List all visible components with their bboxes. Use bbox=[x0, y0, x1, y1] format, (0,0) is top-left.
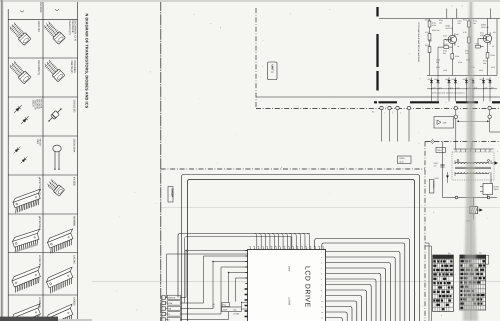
svg-text:C715: C715 bbox=[491, 66, 495, 69]
svg-text:R718: R718 bbox=[491, 54, 495, 57]
svg-text:2SC1815: 2SC1815 bbox=[39, 2, 42, 13]
svg-text:2SC3200B: 2SC3200B bbox=[71, 20, 74, 32]
svg-text:R715: R715 bbox=[475, 42, 479, 45]
svg-text:78L05: 78L05 bbox=[494, 188, 499, 191]
svg-text:MA150: MA150 bbox=[39, 139, 42, 147]
svg-text:1SR35-100A: 1SR35-100A bbox=[72, 139, 75, 153]
svg-text:C700: C700 bbox=[428, 40, 432, 43]
svg-text:C710: C710 bbox=[458, 61, 462, 64]
svg-text:2: 2 bbox=[462, 5, 463, 8]
svg-text:LA1245: LA1245 bbox=[72, 255, 75, 264]
svg-text:100: 100 bbox=[473, 22, 476, 25]
svg-text:LAMP: LAMP bbox=[222, 308, 228, 311]
svg-text:C701: C701 bbox=[443, 35, 447, 38]
svg-text:220: 220 bbox=[439, 22, 442, 25]
svg-text:R702: R702 bbox=[425, 44, 429, 47]
svg-text:P05: P05 bbox=[223, 304, 226, 307]
svg-text:TAB: TAB bbox=[168, 302, 172, 305]
svg-text:LCD DRIVE: LCD DRIVE bbox=[304, 266, 311, 308]
svg-text:µPC577H (R, F): µPC577H (R, F) bbox=[38, 177, 41, 195]
svg-text:1: 1 bbox=[452, 5, 453, 8]
svg-text:SWEEP: SWEEP bbox=[171, 188, 174, 197]
svg-text:2SB794 (F): 2SB794 (F) bbox=[70, 61, 73, 74]
svg-text:LTN28: LTN28 bbox=[233, 313, 239, 316]
svg-text:TP201: TP201 bbox=[399, 157, 405, 160]
svg-text:0.022: 0.022 bbox=[443, 69, 447, 72]
svg-text:R707: R707 bbox=[446, 39, 450, 42]
svg-text:µPC4570HA: µPC4570HA bbox=[38, 216, 41, 230]
svg-text:12V: 12V bbox=[443, 122, 447, 125]
svg-text:2SC1740: 2SC1740 bbox=[37, 21, 40, 32]
svg-text:C705 0.022 C706 470 C707: C705 0.022 C706 470 C707 103 C708 0.01 bbox=[432, 92, 465, 95]
svg-text:MTZJ12B: MTZJ12B bbox=[39, 100, 42, 109]
svg-text:CX501A: CX501A bbox=[432, 181, 435, 189]
svg-text:2SC2999 (R, O, Y): 2SC2999 (R, O, Y) bbox=[74, 20, 77, 41]
svg-text:M54988L: M54988L bbox=[72, 216, 75, 227]
svg-text:(V): (V) bbox=[448, 252, 451, 255]
svg-text:2SC2458 (Y): 2SC2458 (Y) bbox=[37, 60, 40, 75]
svg-text:1ST IF AMP 2ND IF AMP DET AF A: 1ST IF AMP 2ND IF AMP DET AF AMP PWR bbox=[417, 22, 420, 62]
svg-text:330: 330 bbox=[443, 52, 446, 55]
svg-text:10.2V: 10.2V bbox=[399, 160, 404, 163]
svg-text:280V: 280V bbox=[288, 266, 291, 272]
svg-text:N DIAGRAM OF TRANSISTORS, DIOD: N DIAGRAM OF TRANSISTORS, DIODES AND ICS bbox=[84, 14, 88, 109]
svg-text:0.01: 0.01 bbox=[436, 61, 439, 64]
svg-text:(V): (V) bbox=[479, 252, 482, 255]
svg-text:LA3600: LA3600 bbox=[72, 297, 75, 306]
svg-text:LC3517B: LC3517B bbox=[38, 255, 41, 266]
svg-text:2SA1273 (Y): 2SA1273 (Y) bbox=[68, 20, 71, 34]
svg-text:UNIT 1: UNIT 1 bbox=[270, 65, 273, 74]
svg-text:KV1330: KV1330 bbox=[72, 177, 75, 187]
svg-text:x: x bbox=[441, 309, 442, 311]
svg-text:47/16: 47/16 bbox=[480, 34, 484, 37]
svg-text:METER: METER bbox=[168, 297, 176, 300]
svg-text:LC6554H: LC6554H bbox=[38, 297, 41, 308]
svg-text:R703 100: R703 100 bbox=[432, 29, 439, 32]
svg-text:470: 470 bbox=[434, 164, 437, 167]
svg-text:R711: R711 bbox=[463, 18, 467, 21]
svg-text:LC7985: LC7985 bbox=[288, 297, 291, 306]
svg-text:1SV102 (F): 1SV102 (F) bbox=[72, 100, 75, 113]
svg-text:R701: R701 bbox=[425, 18, 429, 21]
svg-text:C506: C506 bbox=[435, 177, 439, 180]
svg-text:DTA124ES: DTA124ES bbox=[73, 61, 76, 74]
svg-text:2SC1740: 2SC1740 bbox=[446, 27, 454, 30]
svg-text:47/16: 47/16 bbox=[432, 24, 436, 27]
svg-text:R708: R708 bbox=[455, 55, 459, 58]
svg-text:2SC1740: 2SC1740 bbox=[481, 26, 489, 29]
